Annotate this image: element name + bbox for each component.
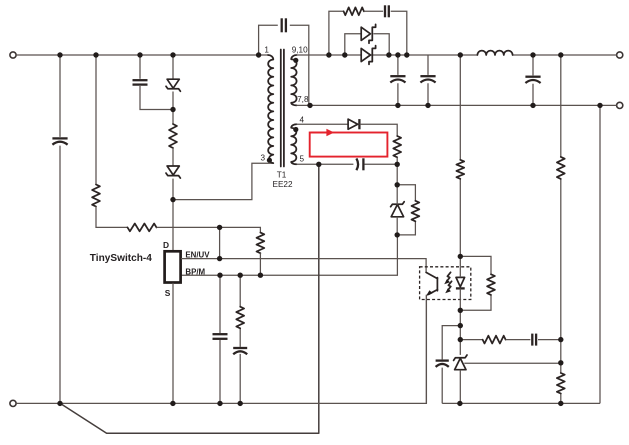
optocoupler U2 LED (456, 277, 465, 288)
node: snubber left (326, 52, 331, 57)
capacitor C-comp1 (436, 361, 449, 367)
shunt regulator U3 TL431 (454, 355, 467, 370)
diode VR-clamp (zener) (166, 166, 180, 178)
capacitor C-snubber (385, 5, 389, 17)
node: BP/M @ R-BP (258, 273, 263, 278)
diode D-out2 (schottky, parallel) (361, 24, 375, 43)
wire: zener leads (396, 185, 398, 235)
node: secondary phase dot pin 9,10 (293, 58, 298, 63)
capacitor C-bias (coupling) (356, 158, 363, 170)
node: BP/M @ C-BP2 (238, 273, 243, 278)
optocoupler U2 package (dashed) (420, 267, 471, 300)
wire: output cap3 leads (532, 55, 534, 105)
wire: TL431 ref line (464, 362, 561, 364)
node: rectifier cathode (386, 52, 391, 57)
wire: clamp cap branch lower (140, 86, 173, 110)
wire: snubber right leg (391, 11, 407, 55)
wire: pin5 to bias cap (297, 163, 354, 165)
wire: output cap2 leads (427, 55, 429, 105)
wire: TL431 cathode node (459, 326, 461, 355)
pin label 4 (300, 115, 305, 124)
IC U1 TinySwitch-4 (165, 251, 181, 282)
node: bias zener bottom (395, 232, 400, 237)
capacitor C-BP2 (233, 348, 247, 354)
svg-text:S: S (165, 288, 171, 298)
wire: drain node to transformer pin 3 (173, 163, 273, 199)
node: return rail @ x600 (597, 103, 602, 108)
wire: bias diode to corner and down (360, 124, 398, 136)
node: divider @ comp RC (558, 337, 563, 342)
resistor R-div-lower (557, 373, 565, 394)
resistor R-linesense-lower (128, 224, 157, 232)
capacitor C-bulk (input electrolytic) (52, 138, 67, 144)
node: out cap1 top (395, 52, 400, 57)
wire: EN/UV tap drop (219, 227, 221, 258)
diode VR-bias (zener to BP/M) (391, 202, 405, 217)
wire: pin4 to bias diode (297, 123, 348, 125)
node: BP/M @ C-BP1 (217, 273, 222, 278)
wire: secondary 7,8 return rail (297, 104, 617, 106)
wire: snubber mid (364, 10, 383, 12)
wire: bias resistor to node (396, 157, 398, 185)
node: out cap2 bottom (425, 103, 430, 108)
svg-text:5: 5 (300, 154, 305, 163)
wire: output rail after inductor (513, 54, 617, 56)
resistor R-FB-upper (LED series) (456, 160, 464, 179)
capacitor C-clamp (133, 80, 148, 84)
wire: feedback upper resistor leads (459, 55, 461, 256)
svg-text:3: 3 (260, 153, 265, 162)
wire: EN/UV line (181, 259, 426, 273)
node: comp RC tap (458, 337, 463, 342)
annotation: red current arrow (311, 129, 335, 137)
node: linesense/EN tap (217, 225, 222, 230)
pin label 3 (260, 153, 265, 162)
capacitor Y-cap pin1-to-7,8 (282, 18, 286, 32)
node: divider ref tap (558, 360, 563, 365)
capacitor C-comp2 (532, 334, 536, 346)
resistor R-clamp (169, 124, 177, 148)
node: rectifier anode (342, 52, 347, 57)
annotation: red highlight box (bias loop) (310, 133, 388, 157)
wire: bias network to BP/M line (181, 235, 398, 275)
node: bus @ clamp diode (170, 52, 175, 57)
wire: divider vertical (560, 55, 562, 403)
node: opto LED top (458, 254, 463, 259)
wire: comp cap branch (442, 326, 460, 404)
svg-text:9,10: 9,10 (292, 45, 308, 54)
node: bias phase dot pin 4 (293, 127, 298, 132)
capacitor C-out2 (420, 76, 435, 82)
pin label 5 (300, 154, 305, 163)
inductor L-output (post filter) (477, 51, 512, 55)
resistor R-bias2 (parallel zener) (412, 201, 420, 222)
node: bus @ bulk cap (57, 52, 62, 57)
node: bias zener top (395, 182, 400, 187)
wire: clamp cap branch upper (139, 55, 141, 79)
transformer T1 secondary winding (pins 9,10-7,8) (291, 55, 296, 105)
diode D-out1 (schottky, on rail) (361, 46, 375, 65)
node: bus @ linesense (93, 52, 98, 57)
pin label 9,10 (292, 45, 308, 54)
transformer T1 primary winding (pins 1-3) (268, 55, 273, 163)
capacitor C-BP1 (213, 334, 228, 339)
resistor R-snubber (344, 7, 364, 15)
wire: line sense elbow (96, 207, 128, 228)
svg-text:BP/M: BP/M (185, 267, 205, 276)
wire: S pin to source rail (172, 283, 174, 404)
node: out cap3 top (530, 52, 535, 57)
node: bias cap/resistor join (395, 162, 400, 167)
pin label EN/UV (185, 250, 210, 259)
node: out cap3 bottom (530, 103, 535, 108)
svg-text:1: 1 (264, 45, 269, 54)
optocoupler U2 light arrows (444, 272, 451, 293)
pin label S (165, 288, 171, 298)
transformer T1 core (281, 50, 284, 167)
pin label 7,8 (297, 95, 309, 104)
wire: opto LED cathode (459, 288, 461, 325)
optocoupler U2 phototransistor (426, 272, 438, 296)
node: opto LED bottom (458, 308, 463, 313)
output terminal V+ (top-right) (617, 52, 623, 58)
node: bus @ clamp cap (137, 52, 142, 57)
diode D-bias (348, 119, 359, 129)
svg-text:D: D (163, 240, 169, 250)
wire: BP cap2 branch (239, 275, 241, 403)
wire: snubber left leg (329, 11, 344, 55)
resistor R-opto (parallel LED) (487, 274, 495, 295)
node: out cap1 bottom (395, 103, 400, 108)
input terminal L1 (top-left) (10, 52, 16, 58)
wire: TL431 anode (459, 370, 461, 404)
resistor R-linesense-upper (92, 185, 100, 207)
wire: bias cap to node (364, 163, 397, 165)
node: drain node (170, 197, 175, 202)
wire: zener to drain node (172, 179, 174, 200)
node: clamp cap/diode join (170, 107, 175, 112)
wire: output return drop to secondary gnd (599, 105, 601, 403)
pin label 1 (264, 45, 269, 54)
wire: comp RC left lead (460, 339, 482, 341)
node: comp cap tap (458, 323, 463, 328)
resistor R-div-upper (557, 157, 565, 179)
svg-text:T1: T1 (277, 170, 287, 179)
wire: R-BP down to BP/M line (259, 253, 261, 275)
pin label BP/M (185, 267, 205, 276)
node: pin 7,8 (307, 103, 312, 108)
wire: comp RC right lead (538, 339, 561, 341)
input terminal L2/N (bottom-left) (10, 400, 16, 406)
output terminal RTN (bottom-right) (617, 102, 623, 108)
wire: secondary ground rail (442, 402, 600, 404)
wire: drain node down to D pin (172, 200, 174, 251)
wire: bias return to input (60, 403, 319, 433)
capacitor C-out3 (525, 77, 540, 83)
wire: BP cap1 leads (219, 275, 221, 403)
label TinySwitch-4 (90, 253, 152, 264)
transformer T1 bias winding (pins 4-5) (291, 124, 296, 164)
wire: clamp cap to x308.8 drop (290, 25, 309, 105)
wire: bulk cap vertical lower (59, 146, 61, 404)
svg-text:EE22: EE22 (272, 180, 292, 189)
node: source rail @ S pin (170, 401, 175, 406)
svg-text:TinySwitch-4: TinySwitch-4 (90, 253, 152, 264)
node: pin 5 junction (316, 162, 321, 167)
wire: secondary 9,10 rail (297, 54, 478, 56)
label EE22 (272, 180, 292, 189)
node: source rail @ bulk (57, 401, 62, 406)
wire: clamp resistor to zener (172, 148, 174, 166)
capacitor C-out1 (390, 76, 405, 82)
wire: opto emitter to source rail (425, 295, 427, 404)
node: feedback tap (458, 52, 463, 57)
resistor R-BP (to BP/M pin) (257, 233, 265, 254)
label T1 (277, 170, 287, 179)
svg-text:7,8: 7,8 (297, 95, 309, 104)
node: snubber right (404, 52, 409, 57)
wire: opto LED anode (459, 256, 461, 277)
resistor R-BP2 (236, 307, 244, 329)
wire: clamp diode branch upper (172, 55, 174, 79)
node: transformer pin 1 (256, 52, 261, 57)
wire: line sense upper (95, 55, 97, 185)
wire: primary pin-1 branch up to clamp cap (259, 25, 278, 55)
node: primary phase dot pin 3 (267, 158, 272, 163)
svg-text:4: 4 (300, 115, 305, 124)
node: sec gnd @ divider (558, 401, 563, 406)
wire: primary source/return rail (16, 295, 426, 403)
resistor R-comp (483, 336, 506, 344)
wire: comp RC mid lead (506, 339, 531, 341)
wire: output cap1 leads (397, 55, 399, 105)
wire: pin5 return drop (318, 164, 320, 433)
wire: parallel diode branch (345, 34, 389, 55)
node: sec gnd @ TL431 (457, 401, 462, 406)
wire: bias parallel resistor branch (397, 185, 415, 235)
node: EN/UV line tap (217, 256, 222, 261)
wire: top DC bus rail (16, 54, 268, 56)
resistor R-bias1 (393, 136, 401, 157)
node: source rail @ C-BP1 (217, 401, 222, 406)
node: divider top (558, 52, 563, 57)
wire: opto parallel resistor branch (460, 256, 491, 310)
pin label D (163, 240, 169, 250)
diode D-clamp (TVS) (166, 79, 180, 91)
wire: line sense to EN/UV drop and BP resistor (157, 227, 261, 232)
node: source rail @ C-BP2 (238, 401, 243, 406)
wire: bulk cap vertical upper (59, 55, 61, 137)
wire: clamp diode to node (172, 92, 174, 125)
